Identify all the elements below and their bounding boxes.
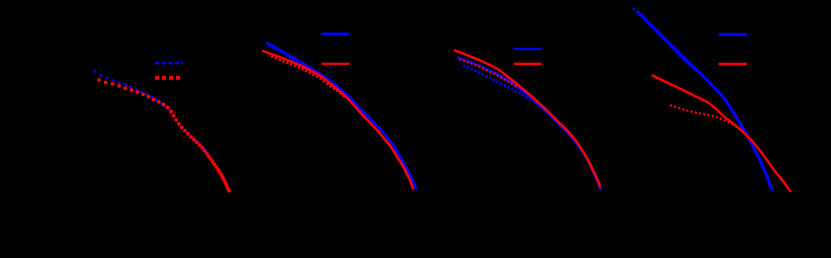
subplot2 blue solid curve xyxy=(267,43,416,189)
subplot3 red dotted curve xyxy=(460,60,516,87)
subplot4 blue solid curve xyxy=(639,13,772,190)
subplot3 blue dotted curve xyxy=(464,66,543,108)
subplot2 blue dotted curve xyxy=(269,46,348,98)
subplot1 legend red dotted line xyxy=(155,76,183,80)
subplot1 blue dotted curve xyxy=(94,70,230,190)
subplot1 legend blue dotted line xyxy=(155,62,183,65)
subplot4 red solid curve xyxy=(653,76,791,192)
subplot2 legend red solid line xyxy=(322,63,350,65)
subplot3 legend red solid line xyxy=(514,63,542,65)
subplot2 red solid curve xyxy=(263,51,413,189)
subplot2 legend blue solid line xyxy=(322,32,350,35)
subplot3 legend blue solid line xyxy=(514,48,542,50)
subplot2 red dotted curve xyxy=(272,57,345,98)
subplot3 blue solid curve xyxy=(458,58,601,190)
subplot4 legend red solid line xyxy=(719,63,747,65)
subplot4 blue dotted curve xyxy=(634,9,696,71)
subplot1 red dotted curve xyxy=(97,78,231,192)
subplot4 red dotted curve xyxy=(671,106,745,134)
subplot3 red solid curve xyxy=(455,51,600,187)
subplot4 legend blue solid line xyxy=(719,33,747,36)
